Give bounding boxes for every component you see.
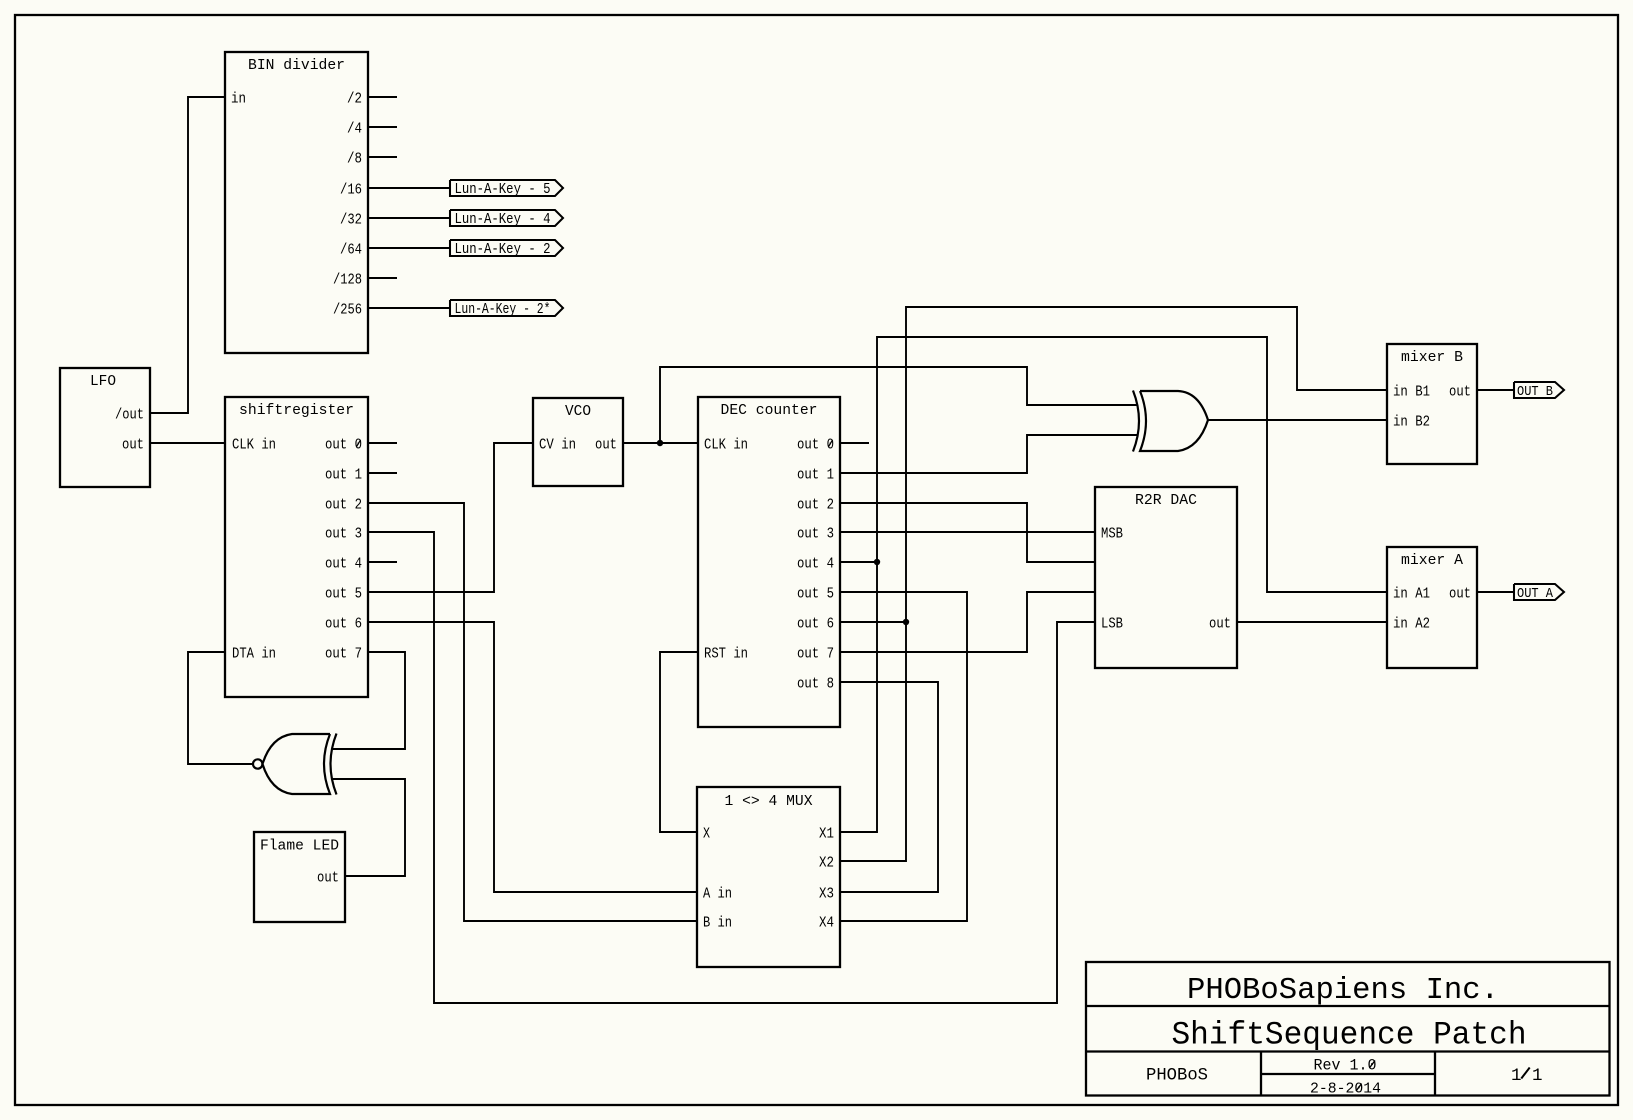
svg-text:out 2: out 2: [325, 497, 362, 514]
wire shiftregister out 5 to VCO CV in: [368, 443, 533, 592]
svg-text:A in: A in: [703, 886, 732, 903]
slashed zero of out 0: [828, 440, 832, 447]
svg-text:X4: X4: [819, 915, 834, 932]
block U8 R2R DAC: [1095, 487, 1237, 668]
svg-text:/32: /32: [340, 212, 362, 229]
svg-text:VCO: VCO: [565, 403, 591, 420]
svg-text:RST in: RST in: [704, 646, 748, 663]
svg-text:Rev 1.0: Rev 1.0: [1314, 1057, 1377, 1075]
svg-text:out 3: out 3: [797, 526, 834, 543]
svg-text:Lun-A-Key - 4: Lun-A-Key - 4: [455, 211, 551, 228]
svg-text:out 6: out 6: [325, 616, 362, 633]
svg-text:out 0: out 0: [797, 437, 834, 454]
wire mixer B out to OUT B: [1477, 389, 1514, 391]
wire DEC out 7 to R2R DAC input 3: [840, 592, 1095, 652]
block U7 1 &lt;&gt; 4 MUX: [697, 787, 840, 967]
svg-text:X: X: [703, 826, 710, 843]
wire shiftregister out 0 stub: [368, 442, 397, 444]
svg-text:in B2: in B2: [1393, 414, 1430, 431]
svg-text:out: out: [122, 437, 144, 454]
block U9 mixer B: [1387, 344, 1477, 464]
junction node B (DEC out 6): [903, 619, 909, 625]
svg-text:/16: /16: [340, 182, 362, 199]
wire BIN /256 to Lun-A-Key - 2*: [368, 307, 450, 309]
wire DEC out 1 to XOR input 2: [840, 435, 1138, 473]
svg-text:X3: X3: [819, 886, 834, 903]
svg-text:DTA in: DTA in: [232, 646, 276, 663]
svg-text:LSB: LSB: [1101, 616, 1123, 633]
svg-text:PHOBoSapiens Inc.: PHOBoSapiens Inc.: [1187, 973, 1499, 1008]
XNOR gate U12: [253, 734, 336, 795]
slashed zero of Rev 1.0: [1369, 1061, 1375, 1069]
svg-text:CV in: CV in: [539, 437, 576, 454]
wire DEC out 6 to node B: [840, 621, 906, 623]
wire net A: mixer A in A1 to MUX X1: [840, 337, 1387, 832]
svg-text:/8: /8: [347, 151, 362, 168]
svg-text:/2: /2: [347, 91, 362, 108]
svg-text:out: out: [1449, 384, 1471, 401]
block U1 BIN divider: [225, 52, 368, 353]
tag node Lun-A-Key - 4: [450, 210, 563, 228]
svg-text:out 5: out 5: [797, 586, 834, 603]
svg-text:mixer A: mixer A: [1401, 552, 1463, 569]
svg-text:out 8: out 8: [797, 676, 834, 693]
wire BIN /64 to Lun-A-Key - 2: [368, 247, 450, 249]
svg-text:OUT B: OUT B: [1517, 385, 1553, 400]
wire BIN /128 stub: [368, 277, 397, 279]
svg-text:BIN divider: BIN divider: [248, 57, 345, 74]
svg-text:CLK in: CLK in: [704, 437, 748, 454]
title block: [1086, 962, 1610, 1098]
wire shiftregister out 4 stub: [368, 561, 397, 563]
wire net B: mixer B in B1 to MUX X2: [840, 307, 1387, 861]
svg-text:Flame LED: Flame LED: [260, 838, 339, 855]
block U10 mixer A: [1387, 547, 1477, 668]
wire BIN /2 stub: [368, 96, 397, 98]
svg-text:/256: /256: [333, 302, 362, 319]
wire node VCO-out branch to XOR input 1: [660, 367, 1138, 443]
svg-text:OUT A: OUT A: [1517, 587, 1554, 602]
svg-text:out 4: out 4: [797, 556, 834, 573]
svg-text:out: out: [1209, 616, 1231, 633]
junction VCO out node: [657, 440, 663, 446]
block U4 VCO: [533, 398, 623, 486]
wire shiftregister out 6 to MUX A in: [368, 622, 697, 892]
wire DEC out 8 to MUX X3: [840, 682, 938, 892]
wire BIN /32 to Lun-A-Key - 4: [368, 217, 450, 219]
svg-text:PHOBoS: PHOBoS: [1146, 1066, 1208, 1086]
wire DEC out 0 stub: [840, 442, 869, 444]
wire LFO /out to BIN divider in: [150, 97, 225, 413]
svg-text:mixer B: mixer B: [1401, 349, 1463, 366]
svg-text:DEC counter: DEC counter: [721, 402, 818, 419]
block U2 LFO: [60, 368, 150, 487]
svg-text:out 7: out 7: [325, 646, 362, 663]
slashed zero of out 0: [356, 440, 360, 447]
svg-text:in: in: [231, 91, 246, 108]
tag node Lun-A-Key - 5: [450, 180, 563, 198]
tag node Lun-A-Key - 2: [450, 240, 563, 258]
wire LFO out to shiftregister CLK in: [150, 442, 225, 444]
wire R2R DAC out to mixer A in A2: [1237, 621, 1387, 623]
svg-text:out 1: out 1: [797, 467, 834, 484]
wire DEC out 2 to R2R DAC input 2: [840, 503, 1095, 562]
svg-text:/out: /out: [115, 407, 144, 424]
block U5 DEC counter: [698, 397, 840, 727]
svg-text:out 4: out 4: [325, 556, 362, 573]
svg-text:1 <> 4 MUX: 1 <> 4 MUX: [725, 793, 813, 810]
svg-text:out 3: out 3: [325, 526, 362, 543]
svg-text:1: 1: [1511, 1066, 1522, 1086]
svg-text:in A1: in A1: [1393, 586, 1430, 603]
wire XOR output to mixer B in B2: [1208, 419, 1387, 421]
svg-text:out: out: [317, 870, 339, 887]
block U6 Flame LED: [254, 832, 345, 922]
svg-text:in A2: in A2: [1393, 616, 1430, 633]
wire Flame LED out to XNOR input 2: [333, 779, 405, 876]
svg-text:out 2: out 2: [797, 497, 834, 514]
block U3 shiftregister: [225, 397, 368, 697]
wire DEC counter RST in to MUX X: [660, 652, 698, 832]
wire DEC out 4 to node A: [840, 561, 877, 563]
wire DEC out 3 to R2R DAC MSB: [840, 531, 1095, 533]
wire shiftregister out 2 to MUX B in: [368, 503, 697, 921]
wire BIN /8 stub: [368, 156, 397, 158]
svg-text:Lun-A-Key - 2*: Lun-A-Key - 2*: [455, 301, 551, 318]
svg-text:X1: X1: [819, 826, 834, 843]
svg-text:out 1: out 1: [325, 467, 362, 484]
wire mixer A out to OUT A: [1477, 591, 1514, 593]
tag node Lun-A-Key - 2*: [450, 300, 563, 318]
svg-text:Lun-A-Key - 2: Lun-A-Key - 2: [455, 241, 551, 258]
svg-text:shiftregister: shiftregister: [239, 402, 354, 419]
svg-text:B in: B in: [703, 915, 732, 932]
wire shiftregister out 1 stub: [368, 472, 397, 474]
svg-text:out: out: [595, 437, 617, 454]
wire shiftregister out 3 to R2R DAC LSB: [368, 532, 1095, 1003]
svg-text:1: 1: [1532, 1066, 1543, 1086]
slashed zero of 2-8-2014: [1356, 1084, 1362, 1091]
svg-text:/4: /4: [347, 121, 362, 138]
svg-text:out: out: [1449, 586, 1471, 603]
svg-text:in B1: in B1: [1393, 384, 1430, 401]
svg-text:CLK in: CLK in: [232, 437, 276, 454]
wire BIN /16 to Lun-A-Key - 5: [368, 187, 450, 189]
wire BIN /4 stub: [368, 126, 397, 128]
tag node OUT A: [1514, 584, 1564, 602]
tag node OUT B: [1514, 382, 1564, 400]
svg-text:2-8-2014: 2-8-2014: [1310, 1081, 1381, 1098]
svg-text:X2: X2: [819, 855, 834, 872]
svg-text:R2R DAC: R2R DAC: [1135, 492, 1197, 509]
svg-text:out 5: out 5: [325, 586, 362, 603]
svg-text:/128: /128: [333, 272, 362, 289]
wire DEC out 5 to MUX X4: [840, 592, 967, 921]
svg-text:Lun-A-Key - 5: Lun-A-Key - 5: [455, 181, 551, 198]
svg-text:out 7: out 7: [797, 646, 834, 663]
svg-text:out 6: out 6: [797, 616, 834, 633]
svg-text:MSB: MSB: [1101, 526, 1123, 543]
svg-text:out 0: out 0: [325, 437, 362, 454]
svg-text:/64: /64: [340, 242, 362, 259]
junction node A (DEC out 4): [874, 559, 880, 565]
svg-text:LFO: LFO: [90, 373, 116, 390]
XOR gate U11: [1133, 391, 1208, 452]
wire VCO out to DEC counter CLK in: [623, 442, 698, 444]
wire shiftregister out 7 to XNOR input 1: [333, 652, 405, 749]
svg-text:ShiftSequence Patch: ShiftSequence Patch: [1172, 1017, 1527, 1054]
wire XNOR output to shiftregister DTA in: [188, 652, 253, 764]
